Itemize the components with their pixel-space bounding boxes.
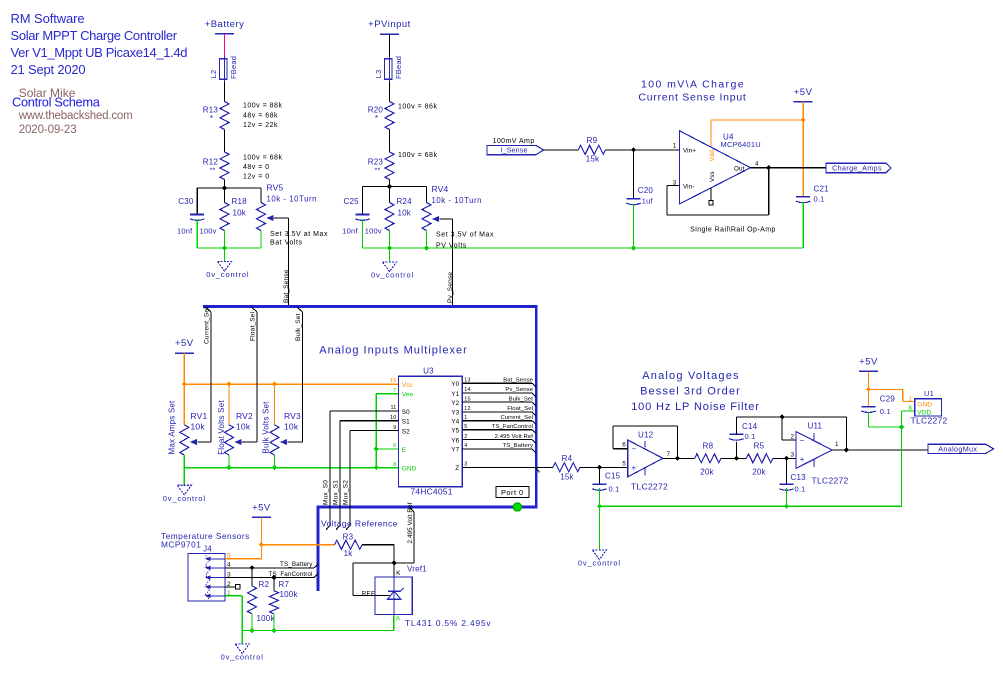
svg-text:K: K: [396, 570, 401, 577]
svg-text:0.1: 0.1: [880, 407, 891, 416]
svg-text:Control Schema: Control Schema: [12, 94, 101, 109]
port Charge_Amps: [826, 163, 891, 173]
wire +5V orange rail to pots and U3 Vcc: [182, 353, 399, 425]
resistor R23: [368, 152, 394, 180]
svg-text:MCP9701: MCP9701: [161, 540, 201, 550]
svg-text:48v = 0: 48v = 0: [243, 164, 270, 171]
svg-text:TL431 0.5% 2.495v: TL431 0.5% 2.495v: [405, 618, 491, 628]
svg-text:100v = 86k: 100v = 86k: [398, 104, 437, 111]
svg-text:+: +: [632, 464, 637, 473]
svg-text:FBead: FBead: [394, 56, 403, 79]
svg-text:100v = 88k: 100v = 88k: [243, 103, 282, 110]
capacitor C25: [342, 197, 382, 236]
svg-text:TLC2272: TLC2272: [812, 476, 849, 486]
svg-text:1: 1: [464, 415, 467, 421]
svg-text:10k - 10Turn: 10k - 10Turn: [432, 196, 483, 205]
svg-text:+5V: +5V: [794, 87, 813, 98]
svg-text:1: 1: [908, 397, 912, 403]
svg-text:Float_Sel: Float_Sel: [507, 406, 533, 412]
svg-text:C15: C15: [605, 472, 621, 481]
svg-text:R5: R5: [754, 441, 765, 450]
port Port 0: [496, 487, 529, 512]
svg-text:C20: C20: [638, 186, 654, 195]
wire node battery divider tap: [197, 180, 261, 215]
svg-text:1uf: 1uf: [642, 197, 654, 206]
svg-text:+5V: +5V: [252, 503, 271, 514]
svg-text:L2: L2: [209, 70, 218, 79]
wire U3 Vee/E/GND green: [374, 394, 399, 471]
svg-text:R3: R3: [343, 533, 354, 542]
wire U3 Y1 pin 14 Pv_Sense: [462, 387, 536, 397]
svg-text:Bat Volts: Bat Volts: [270, 240, 303, 247]
wire U3 Y3 pin 12 Float_Sel: [462, 406, 536, 416]
wire U3 S0 to Mux_S0: [323, 411, 399, 530]
svg-text:+Battery: +Battery: [205, 19, 245, 30]
wire 0v battery green rail: [197, 220, 261, 262]
svg-text:100v: 100v: [365, 227, 382, 236]
svg-text:RV1: RV1: [191, 411, 208, 421]
svg-text:Y1: Y1: [451, 391, 459, 398]
wire U3 Y4 pin 1 Current_Sel: [462, 415, 536, 425]
svg-text:Max Amps Set: Max Amps Set: [168, 400, 177, 455]
svg-text:GND: GND: [917, 401, 932, 408]
svg-text:3: 3: [464, 462, 467, 468]
svg-text:10nf: 10nf: [177, 227, 193, 236]
capacitor C29: [861, 395, 895, 417]
svg-text:1: 1: [835, 441, 839, 448]
svg-text:GND: GND: [402, 466, 417, 473]
capacitor C13: [779, 458, 806, 493]
svg-text:7: 7: [667, 451, 671, 458]
svg-text:12v = 22k: 12v = 22k: [243, 122, 278, 129]
svg-text:Single Rail\Rail Op-Amp: Single Rail\Rail Op-Amp: [690, 227, 776, 234]
capacitor C14: [729, 417, 757, 458]
svg-text:E: E: [402, 447, 406, 454]
wire battery pink: [224, 34, 226, 57]
svg-text:R24: R24: [397, 197, 413, 206]
svg-text:Port 0: Port 0: [501, 488, 524, 497]
wire R5 to U11 plus: [773, 456, 796, 461]
power +5V U1: [859, 357, 878, 372]
svg-text:15k: 15k: [560, 473, 574, 482]
svg-text:R4: R4: [562, 454, 573, 463]
svg-text:+5V: +5V: [175, 338, 194, 349]
wire U12 feedback: [613, 426, 680, 461]
op-amp U4 MCP6401U: [673, 131, 761, 205]
port I_Sense: [487, 145, 544, 154]
svg-text:10k: 10k: [398, 209, 412, 218]
svg-text:12v = 0: 12v = 0: [243, 173, 270, 180]
wire +5V orange to U4 and C21: [711, 102, 806, 197]
wire +5V orange to C29 and U1 GND pin: [866, 371, 915, 406]
svg-text:Vin+: Vin+: [683, 147, 696, 154]
capacitor C21: [796, 185, 829, 249]
label Analog Voltages Bessel 3rd Order 100 Hz LP Noise Filter: [631, 370, 760, 413]
label Set 3.5V at Max Bat Volts: [270, 231, 328, 247]
svg-text:Y3: Y3: [451, 410, 459, 417]
svg-text:C30: C30: [178, 197, 194, 206]
wire RV3 wiper Bulk_Set riser: [288, 307, 303, 442]
svg-text:Out: Out: [734, 165, 745, 172]
wire: [389, 82, 391, 102]
svg-text:0v_control: 0v_control: [206, 270, 249, 279]
wire 0v filter green rail: [597, 488, 902, 550]
svg-text:S1: S1: [402, 419, 410, 426]
svg-text:Bulk Volts Set: Bulk Volts Set: [262, 401, 271, 454]
wire: [224, 130, 226, 153]
svg-text:A: A: [396, 615, 401, 622]
svg-text:9: 9: [393, 425, 396, 431]
wire U3 Y6 pin 2 2.495 Volt Ref: [462, 434, 536, 444]
svg-text:C14: C14: [742, 422, 758, 431]
inductor L3 FBead: [374, 56, 403, 82]
resistor R13: [203, 102, 229, 130]
svg-text:**: **: [210, 168, 216, 175]
svg-text:Vee: Vee: [402, 391, 414, 398]
svg-text:100 Hz LP Noise Filter: 100 Hz LP Noise Filter: [631, 401, 760, 413]
svg-text:R12: R12: [203, 158, 219, 167]
svg-text:+PVinput: +PVinput: [368, 19, 411, 30]
svg-text:13: 13: [464, 377, 470, 383]
bus boundary box (blue): [203, 307, 536, 591]
wire R3 to Vref1 cathode node: [353, 545, 414, 577]
svg-text:R23: R23: [368, 158, 384, 167]
potentiometer RV4: [422, 184, 482, 231]
svg-text:10nf: 10nf: [342, 227, 358, 236]
svg-text:0.1: 0.1: [795, 485, 806, 494]
svg-text:5: 5: [622, 461, 626, 468]
svg-text:Voltage Reference: Voltage Reference: [321, 519, 398, 529]
wire U3 S1 to Mux_S1: [333, 421, 399, 530]
svg-text:**: **: [375, 168, 381, 175]
svg-text:5: 5: [464, 424, 467, 430]
svg-text:0.1: 0.1: [814, 195, 825, 204]
svg-text:RV2: RV2: [236, 411, 253, 421]
svg-text:Vss: Vss: [709, 171, 716, 182]
op-amp U11 TLC2272: [790, 421, 848, 485]
svg-text:Current_Sel: Current_Sel: [204, 307, 211, 344]
svg-text:Y5: Y5: [451, 428, 459, 435]
svg-text:RV5: RV5: [267, 183, 284, 193]
wire C29 green to U1 VDD and 0v rail: [869, 411, 915, 506]
resistor R9: [578, 136, 605, 164]
svg-text:MCP6401U: MCP6401U: [721, 140, 761, 149]
svg-text:10k: 10k: [233, 209, 247, 218]
wire TS_Battery J4 pin4: [225, 561, 318, 570]
wire RV1 wiper Current_Sel riser: [197, 307, 211, 442]
resistor R7: [270, 578, 299, 614]
potentiometer RV5: [257, 183, 318, 231]
ground 0v_control temp: [221, 644, 264, 662]
potentiometer RV3: [262, 401, 302, 455]
svg-text:Vcc: Vcc: [402, 382, 414, 389]
svg-text:Float Volts Set: Float Volts Set: [217, 400, 226, 455]
svg-text:C29: C29: [880, 395, 896, 404]
label Temperature Sensors MCP9701: [161, 531, 250, 550]
svg-text:2.495 Volt Ref: 2.495 Volt Ref: [407, 502, 414, 543]
title block text: [11, 11, 188, 136]
svg-text:10k - 10Turn: 10k - 10Turn: [267, 195, 318, 204]
svg-text:*: *: [210, 114, 213, 123]
svg-text:Mux_S2: Mux_S2: [343, 480, 350, 505]
svg-text:48v = 68k: 48v = 68k: [243, 112, 278, 119]
svg-text:7: 7: [393, 388, 396, 394]
op-amp U12 TLC2272: [622, 430, 670, 491]
svg-text:Z: Z: [455, 465, 459, 472]
label Set 3.5V of Max PV Volts: [436, 232, 494, 250]
svg-text:RV4: RV4: [432, 184, 449, 194]
connector J4: [188, 545, 231, 602]
svg-text:−: −: [800, 436, 805, 445]
wire 0v temp green rail: [225, 596, 394, 644]
svg-text:Float_Sel: Float_Sel: [250, 311, 257, 341]
svg-text:Y4: Y4: [451, 419, 459, 426]
svg-text:100v = 68k: 100v = 68k: [243, 154, 282, 161]
wire U3 S2 to Mux_S2: [343, 431, 399, 530]
resistor R8: [695, 441, 721, 476]
svg-text:12: 12: [464, 406, 470, 412]
wire RV5 wiper to Bat_Sense: [274, 218, 289, 306]
svg-text:Mux_S0: Mux_S0: [323, 480, 330, 505]
label 100 mV/A Charge Current Sense Input: [638, 78, 746, 103]
capacitor C15: [592, 467, 620, 493]
svg-text:2: 2: [790, 433, 794, 440]
svg-text:100v = 68k: 100v = 68k: [398, 152, 437, 159]
svg-text:Set 3.5V of Max: Set 3.5V of Max: [436, 232, 494, 239]
svg-text:R18: R18: [232, 197, 248, 206]
inductor L2 FBead: [209, 56, 238, 82]
wire J4 pin2 stub: [225, 585, 240, 589]
label R12 values: [243, 154, 282, 180]
svg-text:www.thebackshed.com: www.thebackshed.com: [18, 110, 133, 122]
power +PVinput: [368, 19, 411, 34]
svg-text:Mux_S1: Mux_S1: [333, 480, 340, 505]
svg-text:S0: S0: [402, 409, 410, 416]
svg-text:0v_control: 0v_control: [221, 653, 264, 662]
power part U1 TLC2272: [908, 389, 947, 426]
svg-text:6: 6: [622, 441, 626, 448]
svg-text:RM Software: RM Software: [11, 11, 85, 26]
resistor R20: [368, 102, 394, 130]
label R13 values: [243, 103, 282, 129]
svg-text:U11: U11: [808, 421, 823, 430]
wire RV4 wiper to Pv_Sense: [440, 219, 453, 306]
svg-text:Analog Inputs Multiplexer: Analog Inputs Multiplexer: [319, 344, 468, 356]
potentiometer RV1: [168, 400, 208, 455]
power +5V mux: [175, 338, 194, 353]
svg-text:1: 1: [673, 142, 677, 149]
ground 0v_control filter: [578, 550, 621, 568]
wire R8 to R5 node: [721, 456, 746, 461]
svg-text:TS_Battery: TS_Battery: [503, 443, 533, 449]
svg-text:10: 10: [390, 415, 396, 421]
resistor R24: [385, 197, 412, 231]
svg-text:Ver V1_Mppt UB Picaxe14_1.4d: Ver V1_Mppt UB Picaxe14_1.4d: [11, 45, 188, 60]
wire 2.495 Volt Ref riser: [407, 502, 414, 563]
svg-text:74HC4051: 74HC4051: [410, 487, 452, 497]
wire: [224, 82, 226, 102]
ground 0v_control mux: [163, 485, 206, 503]
svg-text:Bulk_Set: Bulk_Set: [509, 396, 534, 402]
svg-text:20k: 20k: [700, 467, 714, 476]
wire U3 Y0 pin 13 Bat_Sense: [462, 377, 536, 387]
svg-text:R9: R9: [587, 136, 598, 145]
svg-text:U3: U3: [423, 367, 434, 376]
svg-text:100v: 100v: [200, 227, 217, 236]
svg-text:Vref1: Vref1: [407, 564, 427, 573]
resistor R12: [203, 152, 229, 180]
wire +5V orange to J4 pin5 and R3: [225, 517, 335, 558]
svg-text:TLC2272: TLC2272: [911, 416, 948, 426]
wire U11 feedback: [736, 414, 849, 452]
svg-text:REF: REF: [362, 590, 375, 597]
svg-text:TS_FanControl: TS_FanControl: [492, 424, 533, 430]
wire U3 Y2 pin 15 Bulk_Set: [462, 396, 536, 406]
resistor R2: [248, 568, 276, 623]
svg-text:TS_Battery: TS_Battery: [280, 561, 313, 568]
svg-text:21 Sept 2020: 21 Sept 2020: [11, 62, 86, 77]
svg-text:10k: 10k: [236, 422, 251, 432]
wire U12 out to R8: [663, 457, 695, 459]
shunt reference Vref1 TL431: [362, 564, 492, 628]
svg-text:0v_control: 0v_control: [578, 559, 621, 568]
resistor R4: [553, 454, 580, 482]
wire R4 to U12 plus: [580, 465, 628, 470]
wire REF loop: [353, 563, 375, 595]
svg-text:8: 8: [908, 406, 912, 412]
svg-text:100 mV\A Charge: 100 mV\A Charge: [641, 78, 745, 90]
svg-text:J4: J4: [203, 545, 212, 554]
svg-text:I_Sense: I_Sense: [500, 148, 527, 155]
power +5V temp: [252, 503, 271, 518]
svg-text:10k: 10k: [284, 422, 299, 432]
resistor R5: [746, 441, 773, 476]
svg-text:11: 11: [391, 405, 397, 411]
svg-text:+: +: [800, 455, 805, 464]
wire U3 Y7 pin 4 TS_Battery: [462, 443, 536, 453]
wire U4 output: [750, 167, 826, 169]
svg-text:*: *: [375, 114, 378, 123]
power +Battery: [205, 19, 245, 34]
multiplexer U3 74HC4051: [390, 367, 462, 497]
svg-text:0v_control: 0v_control: [163, 494, 206, 503]
svg-text:20k: 20k: [752, 467, 766, 476]
svg-text:0v_control: 0v_control: [371, 271, 414, 280]
wire RV2 wiper Float_Sel riser: [242, 307, 257, 442]
svg-text:Bat_Sense: Bat_Sense: [503, 377, 533, 383]
wire U11 output: [832, 449, 928, 451]
svg-text:14: 14: [464, 387, 470, 393]
wire 0v PV-to-filter green rail: [363, 220, 804, 263]
svg-text:100k: 100k: [280, 590, 299, 599]
svg-text:AnalogMux: AnalogMux: [938, 444, 977, 453]
wire: [389, 34, 391, 57]
resistor R18: [220, 197, 247, 231]
svg-text:0.1: 0.1: [609, 485, 620, 494]
svg-text:2.495 Volt Ref: 2.495 Volt Ref: [495, 434, 534, 440]
svg-text:2020-09-23: 2020-09-23: [19, 124, 77, 136]
capacitor C30: [177, 197, 217, 236]
wire: [389, 130, 391, 153]
svg-text:Bulk_Set: Bulk_Set: [295, 313, 302, 341]
svg-text:0.1: 0.1: [745, 432, 756, 441]
svg-text:Y6: Y6: [451, 437, 459, 444]
svg-text:U12: U12: [638, 430, 654, 439]
svg-text:Pv_Sense: Pv_Sense: [447, 272, 454, 303]
svg-text:Vin-: Vin-: [683, 183, 694, 190]
svg-text:10k: 10k: [191, 422, 206, 432]
potentiometer RV2: [217, 400, 253, 455]
svg-text:8: 8: [393, 462, 396, 468]
svg-text:R8: R8: [703, 441, 714, 450]
svg-text:15k: 15k: [586, 155, 600, 164]
ground 0v_control PV: [371, 262, 414, 280]
svg-text:100k: 100k: [257, 614, 276, 623]
capacitor C20: [626, 150, 653, 248]
svg-text:1k: 1k: [344, 549, 354, 558]
svg-text:TS_FanControl: TS_FanControl: [269, 571, 313, 578]
power +5V charge: [794, 87, 813, 102]
svg-text:Vdd: Vdd: [709, 150, 716, 162]
svg-text:15: 15: [464, 396, 470, 402]
svg-text:−: −: [632, 445, 637, 454]
wire to U4 Vin+: [606, 147, 680, 152]
svg-text:R7: R7: [279, 580, 290, 589]
wire U4 feedback Vin- to Out: [667, 165, 772, 215]
svg-text:Pv_Sense: Pv_Sense: [505, 387, 533, 393]
svg-text:Bessel 3rd Order: Bessel 3rd Order: [640, 386, 741, 398]
svg-text:Y2: Y2: [451, 400, 459, 407]
svg-text:Y7: Y7: [451, 447, 459, 454]
wire U3 Y5 pin 5 TS_FanControl: [462, 424, 536, 434]
wire: [544, 149, 579, 151]
svg-text:Set 3.5V at Max: Set 3.5V at Max: [270, 231, 328, 238]
ground 0v_control battery: [206, 262, 249, 280]
svg-text:C25: C25: [344, 197, 360, 206]
svg-text:RV3: RV3: [284, 411, 301, 421]
svg-text:+5V: +5V: [859, 357, 878, 368]
svg-text:C21: C21: [814, 185, 830, 194]
svg-text:6: 6: [393, 443, 396, 449]
svg-text:L3: L3: [374, 70, 383, 79]
svg-text:Y0: Y0: [451, 381, 459, 388]
svg-text:Solar MPPT Charge Controller: Solar MPPT Charge Controller: [11, 28, 178, 43]
wire 0v mux green rail: [184, 455, 398, 485]
svg-text:Analog Voltages: Analog Voltages: [642, 370, 740, 382]
svg-text:Current_Sel: Current_Sel: [500, 415, 533, 421]
svg-text:Bat_Sense: Bat_Sense: [283, 269, 290, 303]
wire U3 Z pin 3 output: [462, 462, 553, 473]
svg-text:S2: S2: [402, 428, 410, 435]
svg-text:FBead: FBead: [229, 56, 238, 79]
wire node PV divider tap: [363, 180, 427, 215]
svg-text:3: 3: [790, 451, 794, 458]
wire TS_FanControl J4 pin3: [225, 571, 318, 580]
svg-text:TLC2272: TLC2272: [631, 482, 668, 492]
svg-text:U1: U1: [924, 389, 934, 398]
port AnalogMux: [928, 444, 994, 453]
svg-text:100mV Amp: 100mV Amp: [493, 138, 535, 145]
svg-text:Charge_Amps: Charge_Amps: [832, 164, 882, 173]
svg-text:Current Sense Input: Current Sense Input: [638, 91, 746, 103]
svg-text:4: 4: [755, 160, 759, 167]
svg-text:2: 2: [464, 434, 467, 440]
svg-text:16: 16: [390, 378, 396, 384]
svg-text:C13: C13: [791, 473, 807, 482]
resistor R3: [335, 533, 363, 559]
svg-text:4: 4: [464, 443, 467, 449]
svg-text:R2: R2: [259, 580, 270, 589]
